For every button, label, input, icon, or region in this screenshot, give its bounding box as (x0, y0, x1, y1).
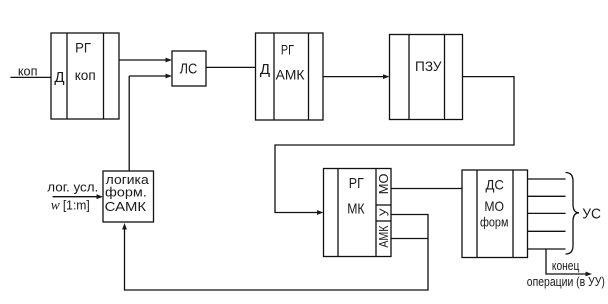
wire конец операции (546, 249, 592, 276)
svg-text:ЛС: ЛС (180, 62, 198, 78)
svg-text:МО: МО (484, 198, 504, 214)
svg-text:форм: форм (480, 215, 509, 230)
svg-text:У: У (377, 208, 391, 216)
svg-text:ПЗУ: ПЗУ (415, 59, 442, 74)
svg-text:РГ: РГ (281, 42, 294, 58)
feedback wire У и АМК to логика САМК (122, 215, 428, 291)
svg-text:РГ: РГ (349, 176, 364, 192)
svg-text:УС: УС (582, 205, 601, 222)
input wire лог. усл. (53, 194, 104, 199)
svg-text:w[1:m]: w[1:m] (51, 198, 90, 213)
register РГ коп block (51, 33, 119, 119)
register РГ МК block (324, 169, 392, 257)
svg-text:АМК: АМК (276, 67, 306, 83)
logic circuit ЛС block (172, 51, 206, 86)
output wires УС (528, 179, 566, 249)
svg-text:Д: Д (54, 69, 64, 86)
svg-text:Д: Д (260, 61, 270, 78)
svg-text:МО: МО (377, 173, 391, 194)
svg-text:конец: конец (552, 258, 580, 273)
svg-text:РГ: РГ (75, 40, 91, 56)
decoder ДС МО форм block (462, 170, 528, 258)
wire АМК branch (391, 238, 428, 240)
svg-text:лог. усл.: лог. усл. (47, 179, 98, 194)
svg-text:МК: МК (347, 202, 365, 218)
wire логика САМК to ЛС (129, 74, 172, 171)
wire ЛС to РГ АМК (206, 66, 256, 68)
svg-text:коп: коп (18, 64, 38, 79)
wire РГ АМК to ПЗУ (323, 74, 390, 79)
svg-text:ДС: ДС (485, 176, 504, 192)
svg-text:коп: коп (75, 67, 96, 83)
logic block логика форм САМК (103, 171, 154, 222)
wire РГ коп to ЛС (119, 58, 172, 63)
ROM ПЗУ block (390, 35, 463, 120)
register РГ АМК block (256, 33, 324, 120)
svg-text:АМК: АМК (377, 225, 391, 248)
wire ПЗУ to РГ МК (275, 77, 514, 215)
svg-text:операции (в УУ): операции (в УУ) (527, 274, 605, 289)
input wire коп (11, 76, 52, 78)
brace УС (566, 173, 580, 255)
svg-text:САМК: САМК (105, 199, 147, 214)
wire МО to ДС (391, 188, 462, 190)
svg-text:форм.: форм. (105, 184, 147, 199)
